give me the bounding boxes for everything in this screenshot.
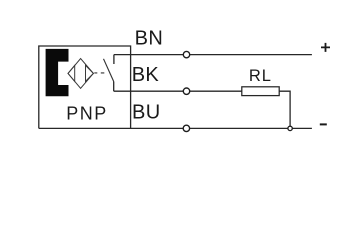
svg-text:RL: RL [249,67,272,85]
switch fixed contact [113,55,115,64]
diamond right triangle [86,65,94,81]
svg-text:PNP: PNP [66,103,108,123]
minus terminal [320,123,327,125]
dashed actuation link [94,72,104,74]
sensor box outline [39,46,131,128]
wire BK [114,90,242,92]
svg-text:BK: BK [132,64,160,86]
plus terminal [321,43,330,52]
sensor face bracket [46,49,69,96]
svg-text:BU: BU [132,102,161,124]
terminal circle BN [183,51,189,57]
wire BU [39,127,312,129]
proximity sensor diamond [68,59,93,89]
switch blade (NO contact) [104,59,114,82]
wire BN [114,54,312,56]
resistor RL [242,87,279,96]
wire RL to corner [279,91,290,128]
diamond left triangle [68,65,75,81]
terminal circle BK [183,88,189,94]
switch lower stub [113,82,115,92]
svg-text:BN: BN [135,27,164,49]
junction circle [288,126,292,130]
terminal circle BU [183,125,189,131]
